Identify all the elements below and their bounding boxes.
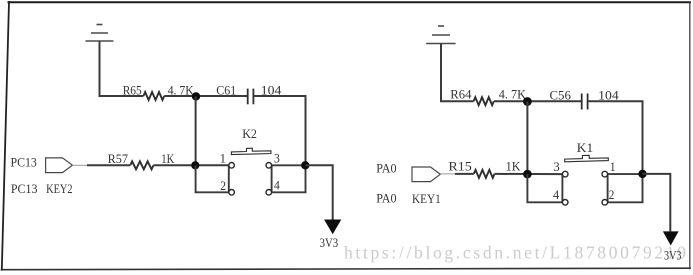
wire K1 left loop <box>527 174 562 202</box>
svg-text:2: 2 <box>609 188 615 202</box>
wire stub to R15 <box>455 173 474 175</box>
capacitor C61 <box>248 89 254 105</box>
wire ground stem to row1 (left) <box>100 41 144 96</box>
resistor R65 <box>143 92 164 100</box>
switch K1 body <box>527 141 642 205</box>
wire R65 to C61 <box>164 95 247 97</box>
svg-text:1K: 1K <box>161 152 174 166</box>
wire R15 to switch pin 3 <box>495 173 563 175</box>
wire R64 to C56 <box>494 100 582 102</box>
svg-text:1K: 1K <box>506 159 521 173</box>
junction node (R64/C56/K1 pullup) <box>523 97 532 106</box>
wire K1 to 3V3 arrow (right) <box>643 174 671 232</box>
svg-text:4: 4 <box>274 179 280 193</box>
svg-text:C56: C56 <box>550 89 571 103</box>
wire junction down to K2 left node <box>195 96 197 165</box>
wire R57 to switch pin 1 <box>154 164 229 166</box>
pin 4 circle <box>562 200 568 206</box>
wire K2 right loop <box>272 165 306 192</box>
svg-text:3V3: 3V3 <box>320 236 339 250</box>
svg-text:C61: C61 <box>216 84 236 98</box>
ground GND (right) <box>426 26 455 44</box>
svg-text:3: 3 <box>554 160 560 174</box>
svg-text:R57: R57 <box>108 152 128 166</box>
svg-text:4: 4 <box>553 188 560 202</box>
wire K2 left loop <box>196 165 229 192</box>
svg-text:KEY1: KEY1 <box>412 192 441 206</box>
wire K2 to 3V3 arrow <box>306 165 333 219</box>
svg-text:4. 7K: 4. 7K <box>499 88 526 102</box>
svg-text:PA0: PA0 <box>376 192 396 206</box>
ground GND (left) <box>86 25 114 42</box>
K2 actuator bar <box>231 148 271 154</box>
wire C56 to right corner, down to K1 <box>588 101 643 174</box>
pin 1 circle <box>602 171 608 177</box>
pin 3 circle <box>562 171 568 177</box>
junction node (R65/C61/K2 pullup) <box>192 92 200 100</box>
pin 3 circle <box>266 163 272 169</box>
wire ground stem to row1 (right) <box>441 44 474 102</box>
resistor R64 <box>474 97 494 105</box>
resistor R15 <box>474 170 495 178</box>
svg-text:3V3: 3V3 <box>664 249 682 263</box>
connector PA0 <box>412 167 440 182</box>
svg-text:1: 1 <box>610 160 616 174</box>
pin 2 circle <box>229 190 235 196</box>
power 3V3 arrow (right) <box>663 231 679 245</box>
junction node (K1 left) <box>523 170 532 179</box>
capacitor C56 <box>582 94 588 110</box>
wire junction down to K1 left node <box>526 102 528 175</box>
wire connector stub (right) <box>440 173 456 175</box>
svg-text:R15: R15 <box>448 159 471 173</box>
svg-text:PA0: PA0 <box>376 162 396 176</box>
svg-text:https://blog.csdn.net/L1878007: https://blog.csdn.net/L18780079219 <box>344 243 686 263</box>
junction node (K2 right) <box>301 161 309 169</box>
wire connector stub <box>72 164 88 166</box>
pin 1 circle <box>229 163 235 169</box>
switch K2 body <box>196 127 306 195</box>
pin 4 circle <box>266 190 272 196</box>
wire stub to R57 <box>87 164 130 166</box>
svg-text:R65: R65 <box>123 83 142 97</box>
svg-text:K1: K1 <box>577 141 593 155</box>
power 3V3 arrow (left) <box>324 220 341 235</box>
pin 2 circle <box>602 200 608 206</box>
svg-text:KEY2: KEY2 <box>46 182 73 196</box>
svg-text:K2: K2 <box>242 127 257 141</box>
svg-text:1: 1 <box>220 152 226 166</box>
svg-text:2: 2 <box>220 179 226 193</box>
svg-text:3: 3 <box>274 152 280 166</box>
connector PC13 <box>46 158 73 173</box>
svg-text:R64: R64 <box>450 88 472 102</box>
resistor R57 <box>130 161 153 169</box>
wire C61 to right corner, down to K2 <box>254 96 306 165</box>
junction node (K2 left) <box>191 161 199 169</box>
K1 actuator bar <box>565 155 609 162</box>
svg-text:PC13: PC13 <box>11 155 37 169</box>
junction node (K1 right) <box>638 170 646 178</box>
wire K1 right loop <box>608 174 643 202</box>
svg-text:PC13: PC13 <box>11 182 38 196</box>
